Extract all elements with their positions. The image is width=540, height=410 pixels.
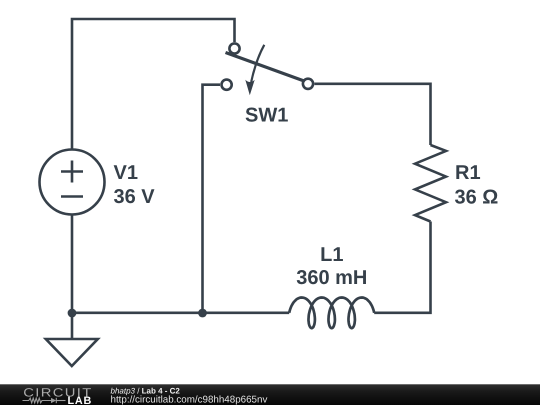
- svg-text:36 Ω: 36 Ω: [455, 186, 499, 208]
- svg-text:V1: V1: [114, 162, 138, 184]
- svg-text:LAB: LAB: [68, 395, 93, 405]
- svg-text:SW1: SW1: [245, 105, 288, 127]
- wire: [203, 311, 290, 314]
- switch SW1: [222, 43, 314, 89]
- switch actuation arrow: [245, 45, 264, 95]
- wire: [72, 311, 203, 314]
- svg-text:L1: L1: [320, 244, 343, 266]
- CircuitLab logo: [23, 385, 93, 407]
- wire: [71, 215, 74, 313]
- svg-text:R1: R1: [455, 162, 481, 184]
- wire: [203, 85, 221, 313]
- inductor L1: [289, 298, 374, 329]
- footer bar: [0, 384, 540, 405]
- wire: [72, 19, 235, 150]
- footer text: [111, 387, 268, 406]
- svg-text:http://circuitlab.com/c98hh48p: http://circuitlab.com/c98hh48p665nv: [111, 395, 268, 405]
- node junction: [68, 309, 77, 318]
- resistor R1: [415, 145, 446, 222]
- svg-text:36 V: 36 V: [114, 186, 156, 208]
- ground: [46, 313, 98, 366]
- svg-text:360 mH: 360 mH: [296, 267, 367, 289]
- wire: [374, 222, 430, 313]
- node junction: [198, 309, 207, 318]
- wire: [315, 84, 431, 145]
- voltage source V1: [40, 150, 105, 215]
